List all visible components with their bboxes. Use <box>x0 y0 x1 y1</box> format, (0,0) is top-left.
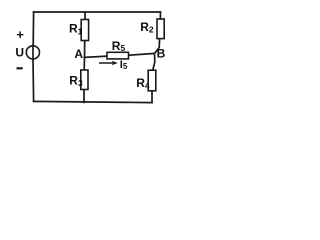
wire: through source circle <box>32 45 34 59</box>
wire: bottom horizontal <box>34 101 152 102</box>
wire: bridge R5 to B <box>129 53 155 55</box>
svg-text:+: + <box>16 27 24 42</box>
svg-text:U: U <box>15 45 24 59</box>
resistor R1 <box>81 20 88 41</box>
wire: top horizontal <box>34 11 161 13</box>
resistor R4 <box>148 70 156 91</box>
wire: middle branch top (top wire to R1) <box>84 12 86 20</box>
svg-text:R2: R2 <box>140 20 154 35</box>
resistor R5 <box>107 52 129 59</box>
wire: R1 to node A <box>84 41 86 58</box>
wire: R3 to bottom wire <box>83 90 85 103</box>
wire: bridge A to R5 <box>85 56 108 57</box>
wire: right branch top (corner to R2) <box>159 12 161 19</box>
svg-text:I5: I5 <box>120 59 128 71</box>
svg-text:B: B <box>157 47 166 61</box>
resistor R2 <box>157 19 164 39</box>
voltage source U <box>26 46 39 59</box>
wire: node A to R3 <box>83 57 85 70</box>
wire: node B to R4 <box>153 54 155 71</box>
wire: R2 to node B <box>155 39 160 54</box>
current arrow I5 <box>99 61 118 66</box>
svg-text:A: A <box>74 47 83 61</box>
resistor R3 <box>81 70 88 90</box>
polarity - <box>17 67 23 69</box>
wire: left rail lower (source to bottom corner) <box>32 60 35 102</box>
svg-text:R5: R5 <box>112 39 126 53</box>
wire: left rail upper (corner to source) <box>32 12 34 45</box>
wire: R4 to bottom wire <box>151 90 153 103</box>
